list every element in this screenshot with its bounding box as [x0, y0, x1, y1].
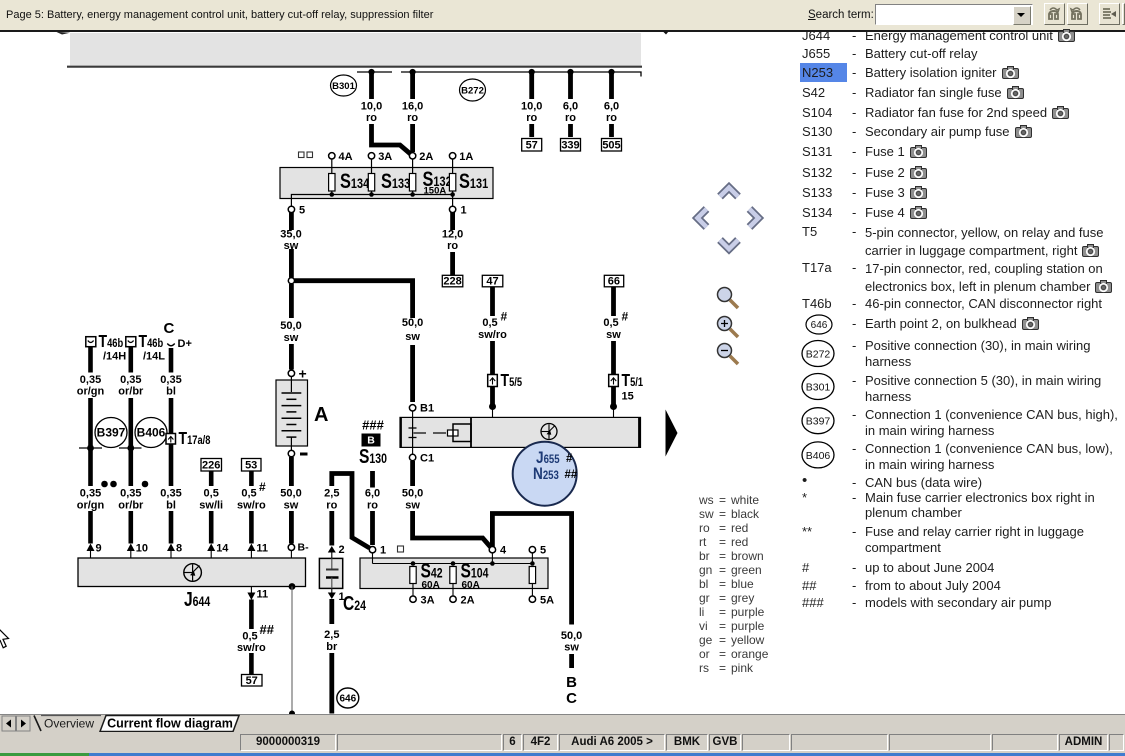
svg-text:9: 9	[96, 543, 102, 555]
svg-text:0,35: 0,35	[80, 488, 101, 500]
svg-text:50,0: 50,0	[280, 488, 301, 500]
svg-text:B-: B-	[298, 542, 310, 554]
earth point 646	[337, 688, 359, 708]
svg-text:ro: ro	[326, 500, 337, 512]
junction B397 tap	[79, 445, 102, 452]
fuse S131	[449, 169, 488, 192]
wire colour code key	[698, 492, 700, 494]
junction T5/1 to relay	[610, 403, 617, 417]
svg-text:2,5: 2,5	[324, 629, 339, 641]
svg-text:##: ##	[260, 622, 275, 637]
svg-text:sw: sw	[284, 500, 299, 512]
svg-text:sw: sw	[405, 331, 420, 343]
CAN bus dot wire 2	[142, 481, 149, 488]
pin 3A	[410, 584, 435, 607]
svg-text:/14L: /14L	[143, 351, 165, 363]
wire 6,0 ro S130 to pin 1	[370, 471, 375, 545]
svg-text:1: 1	[461, 205, 467, 217]
lead 4A	[331, 159, 333, 174]
pin 9 arrow	[87, 543, 102, 559]
value label 6,0 ro	[563, 101, 578, 125]
svg-text:B397: B397	[806, 416, 831, 428]
earth lead from J644	[289, 583, 296, 716]
bus bar track (30) grey band	[67, 33, 642, 67]
svg-text:0,5: 0,5	[204, 488, 219, 500]
svg-text:B272: B272	[461, 86, 484, 97]
svg-text:1: 1	[339, 591, 345, 603]
svg-text:+: +	[299, 366, 307, 382]
value label 12,0 ro	[442, 229, 463, 253]
pin 2A	[450, 584, 475, 607]
wire 0,35 or/br (CAN low)	[129, 347, 134, 544]
svg-text:sw/ro: sw/ro	[237, 500, 266, 512]
junction on bus at 339 wire	[567, 69, 573, 75]
legend symbol earth 646	[806, 315, 832, 334]
junction on bus at 57 wire	[529, 69, 535, 75]
svg-text:0,35: 0,35	[80, 374, 101, 386]
pin 11 arrow	[247, 543, 268, 559]
svg-text:T46b: T46b	[99, 331, 124, 351]
svg-text:0,35: 0,35	[120, 488, 141, 500]
svg-text:#: #	[501, 310, 508, 324]
svg-text:A: A	[314, 404, 328, 426]
svg-text:60A: 60A	[462, 580, 480, 591]
svg-text:5A: 5A	[540, 595, 554, 607]
CAN bus dots wire 1	[101, 481, 117, 488]
wire 0,5 sw/li	[209, 471, 214, 544]
label C24	[343, 592, 366, 614]
svg-text:10,0: 10,0	[361, 101, 382, 113]
connector T5/1 terminal 15	[609, 370, 643, 402]
svg-text:sw: sw	[606, 329, 621, 341]
internal bus S42 box	[373, 553, 535, 566]
svg-text:0,35: 0,35	[160, 374, 181, 386]
svg-text:0,35: 0,35	[160, 488, 181, 500]
wire 0,5# sw node 66 to T5/1	[611, 287, 616, 404]
value label 0,35 bl lower	[160, 488, 181, 512]
control unit J644 body	[78, 558, 306, 587]
svg-text:60A: 60A	[422, 580, 440, 591]
svg-text:0,35: 0,35	[120, 374, 141, 386]
svg-text:53: 53	[245, 460, 257, 472]
junction on bus at 10,0 wire	[368, 69, 374, 75]
svg-text:B406: B406	[806, 450, 831, 462]
wire 6,0 ro to node 505	[609, 73, 614, 137]
wire 50,0 sw to battery plus	[289, 284, 294, 370]
svg-text:646: 646	[811, 320, 828, 331]
svg-text:ro: ro	[565, 112, 576, 124]
value label 10,0 ro	[521, 101, 542, 125]
svg-text:50,0: 50,0	[280, 320, 301, 332]
value label 10,0 ro	[361, 101, 382, 125]
value label 0,5 sw/li	[199, 488, 223, 512]
wire 10,0 ro to fuse 2A	[372, 73, 411, 154]
node 228	[442, 275, 463, 287]
wire 50,0 sw branch to relay B1	[410, 283, 415, 402]
node 57 lower	[242, 675, 263, 688]
fuse 5A column	[529, 567, 535, 584]
control unit symbol in relay	[541, 424, 557, 440]
svg-text:14: 14	[216, 543, 229, 555]
wire bus segment B272	[401, 72, 641, 77]
page continuation arrow	[666, 410, 678, 457]
models marker ###	[362, 418, 384, 433]
pin 1 fuse carrier	[369, 545, 386, 557]
value label 50,0 sw	[402, 488, 423, 512]
battery plus terminal	[288, 366, 306, 382]
svg-text:/14H: /14H	[103, 351, 126, 363]
node C label	[164, 320, 175, 337]
svg-text:B406: B406	[137, 426, 166, 440]
wire 10,0 ro to node 57	[529, 73, 534, 137]
wire 2,5 br to earth 646	[329, 599, 334, 714]
pin 4 fuse carrier	[489, 545, 507, 557]
svg-text:47: 47	[486, 276, 498, 288]
highlight circle J655 N253	[513, 442, 578, 506]
svg-text:50,0: 50,0	[402, 317, 423, 329]
connector T46b/14L	[126, 331, 165, 362]
svg-text:S130: S130	[359, 445, 387, 467]
svg-text:2A: 2A	[419, 151, 433, 163]
pin 5 fuse carrier	[529, 545, 546, 557]
wire 0,5## sw/ro to node 57	[249, 600, 254, 675]
status bar	[0, 732, 1125, 753]
svg-text:or/gn: or/gn	[77, 500, 105, 512]
svg-text:16,0: 16,0	[402, 101, 423, 113]
wire 0,35 bl (D+)	[169, 348, 174, 544]
value label 0,5# sw/ro	[237, 480, 266, 512]
nav chevron left	[698, 209, 707, 227]
value label 35,0 sw	[280, 229, 301, 253]
carrier marker square	[398, 546, 404, 552]
svg-text:8: 8	[176, 543, 182, 555]
battery minus terminal	[288, 450, 307, 456]
svg-text:ro: ro	[407, 112, 418, 124]
wire 16,0 ro to fuse 2A	[410, 73, 415, 152]
application top bar	[0, 0, 1125, 30]
legend list	[800, 63, 847, 82]
zoom tool plain	[718, 288, 739, 309]
value label 50,0 sw	[280, 320, 301, 344]
wire 50,0 sw C1 to pin 4	[413, 461, 491, 547]
svg-text:C1: C1	[420, 453, 434, 465]
fuse box S131-S134 body	[280, 168, 493, 199]
pin 2A	[409, 151, 433, 163]
svg-text:sw/ro: sw/ro	[478, 329, 507, 341]
positive connection B301	[331, 75, 357, 96]
svg-text:T46b: T46b	[139, 331, 164, 351]
svg-text:2: 2	[339, 544, 345, 556]
svg-text:228: 228	[443, 276, 461, 288]
wire bus segment B301	[357, 71, 392, 73]
wire 6,0 ro to node 339	[568, 73, 573, 137]
suppression filter C24 body	[319, 558, 342, 588]
svg-text:11: 11	[256, 543, 268, 555]
svg-text:3A: 3A	[378, 151, 392, 163]
nav chevron right	[750, 209, 759, 227]
svg-text:B1: B1	[420, 403, 434, 415]
pin B-	[288, 542, 309, 559]
fuse carrier marker squares	[299, 152, 313, 158]
pin 1	[449, 205, 466, 217]
connection B406	[135, 418, 167, 448]
svg-text:50,0: 50,0	[561, 630, 582, 642]
lead 2A	[412, 159, 414, 174]
relay J655/N253 body	[400, 417, 641, 447]
positive connection B272	[460, 79, 486, 101]
svg-text:0,5: 0,5	[242, 631, 257, 643]
value label 0,35 or/gn lower	[77, 488, 105, 512]
svg-text:35,0: 35,0	[280, 229, 301, 241]
svg-text:sw: sw	[405, 500, 420, 512]
fuse box internal bus	[291, 192, 455, 206]
svg-text:C: C	[566, 690, 577, 707]
value label 0,35 or/br lower	[118, 488, 144, 512]
svg-text:66: 66	[608, 276, 620, 288]
value label 0,5# sw/ro	[478, 310, 507, 342]
relay contact symbol	[409, 417, 472, 447]
svg-text:0,5: 0,5	[603, 317, 618, 329]
legend symbol B272	[802, 341, 834, 367]
svg-text:ro: ro	[367, 500, 378, 512]
value label 0,35 or/gn	[77, 374, 105, 398]
fuse S134	[329, 169, 370, 192]
svg-text:57: 57	[246, 675, 258, 687]
svg-text:B272: B272	[806, 349, 831, 361]
svg-text:ro: ro	[606, 112, 617, 124]
node C	[566, 690, 577, 707]
value label 0,35 or/br	[118, 374, 144, 398]
fuse S132 150A	[409, 167, 451, 196]
node 66	[604, 275, 623, 287]
node 226	[201, 459, 222, 472]
torn corner mark left	[56, 32, 70, 35]
pin C1	[409, 447, 434, 464]
svg-text:B301: B301	[806, 382, 831, 394]
svg-text:br: br	[326, 641, 338, 653]
value label 2,5 ro	[324, 488, 339, 512]
node B	[566, 674, 577, 691]
junction on bus at 505 wire	[608, 69, 614, 75]
node 339	[561, 139, 581, 152]
legend symbol B406	[802, 442, 834, 468]
svg-text:2,5: 2,5	[324, 488, 339, 500]
value label 2,5 br	[324, 629, 339, 653]
value label 0,5# sw	[603, 310, 628, 342]
svg-text:57: 57	[526, 140, 538, 152]
junction node battery branch	[288, 278, 294, 284]
wire pin 4 to B C	[492, 514, 571, 669]
svg-text:5: 5	[299, 205, 305, 217]
svg-text:10,0: 10,0	[521, 101, 542, 113]
svg-text:5: 5	[540, 545, 546, 557]
svg-text:#: #	[259, 480, 266, 494]
wire 0,35 or/gn (CAN high)	[88, 347, 93, 544]
svg-text:T5/1: T5/1	[622, 370, 644, 390]
pin 1A	[449, 151, 473, 163]
connector T46b/14H	[86, 331, 126, 362]
value label 50,0 sw	[280, 488, 301, 512]
battery A	[276, 377, 308, 451]
junction on bus at 16,0 wire	[410, 69, 416, 75]
pin 14 arrow	[207, 543, 229, 559]
svg-text:sw: sw	[284, 332, 299, 344]
svg-text:6,0: 6,0	[604, 101, 619, 113]
svg-text:4: 4	[500, 545, 507, 557]
svg-text:B397: B397	[97, 426, 126, 440]
connection B397	[95, 418, 127, 448]
svg-text:T17a/8: T17a/8	[179, 428, 211, 448]
svg-text:sw: sw	[284, 240, 299, 252]
junction B406 tap	[119, 445, 142, 452]
svg-text:C: C	[164, 320, 175, 337]
svg-text:bl: bl	[166, 500, 176, 512]
svg-text:sw/ro: sw/ro	[237, 642, 266, 654]
wire 50,0 sw battery minus to J644 B-	[289, 457, 294, 544]
connector T5/5	[488, 370, 522, 390]
value label 16,0 ro	[402, 101, 423, 125]
svg-text:3A: 3A	[421, 595, 435, 607]
svg-text:0,5: 0,5	[482, 317, 497, 329]
svg-text:1A: 1A	[459, 151, 473, 163]
value label 50,0 sw	[561, 630, 582, 654]
zoom tool minus	[718, 344, 739, 365]
svg-text:T5/5: T5/5	[501, 370, 523, 390]
value label 0,35 bl	[160, 374, 181, 398]
svg-text:or/br: or/br	[118, 500, 144, 512]
svg-text:ro: ro	[526, 112, 537, 124]
pin 11 output arrow	[247, 587, 268, 601]
svg-text:0,5: 0,5	[241, 488, 256, 500]
torn-edge tick top	[663, 32, 669, 35]
svg-text:ro: ro	[366, 112, 377, 124]
control unit symbol J644	[184, 564, 202, 582]
value label 0,5## sw/ro	[237, 622, 275, 654]
pin 2 arrow C24	[328, 544, 345, 558]
svg-text:6,0: 6,0	[563, 101, 578, 113]
node 47	[482, 275, 503, 287]
svg-text:sw: sw	[564, 642, 579, 654]
value label 6,0 ro	[604, 101, 619, 125]
pin 1 output arrow C24	[328, 588, 345, 603]
wire 12,0 ro pin 1 to node 228	[450, 213, 455, 276]
svg-text:6,0: 6,0	[365, 488, 380, 500]
node D+ terminal cup	[167, 338, 192, 350]
svg-text:bl: bl	[166, 386, 176, 398]
nav chevron up	[720, 188, 738, 197]
svg-text:Overview: Overview	[44, 717, 94, 731]
nav chevron down	[720, 240, 738, 249]
lead 1A	[452, 159, 454, 174]
pin 5	[288, 205, 305, 217]
wire 2,5 ro C24 to fuse box pin 1	[332, 474, 370, 549]
fuse S130 label	[359, 445, 387, 467]
pin 8 arrow	[167, 543, 182, 559]
lead 3A	[371, 159, 373, 174]
svg-text:B301: B301	[332, 81, 355, 92]
svg-text:646: 646	[339, 694, 356, 705]
wire 0,5# sw/ro node 47 to T5/5	[490, 287, 495, 404]
connector T17a/8	[166, 428, 210, 448]
node 53	[242, 459, 262, 472]
svg-text:50,0: 50,0	[402, 488, 423, 500]
value label 6,0 ro	[365, 488, 380, 512]
svg-text:15: 15	[622, 391, 634, 403]
svg-text:339: 339	[561, 140, 579, 152]
pin B1	[409, 403, 434, 418]
svg-text:11: 11	[257, 589, 269, 601]
wire 35,0 sw from pin 5	[289, 213, 294, 278]
svg-text:1: 1	[380, 545, 386, 557]
mouse cursor	[0, 625, 9, 648]
label J644	[184, 588, 210, 610]
svg-text:505: 505	[602, 140, 620, 152]
terminal B black box	[362, 434, 381, 447]
svg-text:##: ##	[565, 469, 578, 481]
svg-text:Current flow diagram: Current flow diagram	[107, 717, 233, 731]
zoom tool plus	[718, 317, 739, 338]
svg-text:10: 10	[136, 543, 148, 555]
battery label A	[314, 404, 328, 426]
pin 10 arrow	[127, 543, 148, 559]
fuse S104 60A	[450, 560, 489, 591]
svg-text:4A: 4A	[339, 151, 353, 163]
svg-text:2A: 2A	[461, 595, 475, 607]
node 57	[522, 139, 542, 152]
value label 50,0 sw	[402, 317, 423, 343]
junction T5/5 to relay	[489, 403, 496, 417]
node 505	[602, 139, 622, 152]
pin 5A	[529, 584, 554, 607]
svg-text:226: 226	[202, 460, 220, 472]
svg-text:J644: J644	[184, 588, 210, 610]
svg-text:#: #	[566, 453, 573, 465]
wire branch to relay B1	[295, 281, 413, 290]
svg-text:B: B	[566, 674, 577, 691]
legend symbol B301	[802, 374, 834, 400]
svg-text:D+: D+	[178, 338, 192, 350]
svg-text:12,0: 12,0	[442, 229, 463, 241]
svg-text:#: #	[622, 310, 629, 324]
lead fuse bottoms	[332, 191, 453, 195]
wire 0,5 sw/ro	[249, 471, 254, 544]
pin 4A	[329, 151, 353, 163]
fuse box S42/S104 body	[360, 558, 548, 589]
svg-text:C24: C24	[343, 592, 366, 614]
fuse S42 60A	[410, 560, 443, 591]
svg-text:or/br: or/br	[118, 386, 144, 398]
tab bar	[0, 714, 1125, 732]
svg-text:sw/li: sw/li	[199, 500, 223, 512]
pin 3A	[368, 151, 392, 163]
svg-text:###: ###	[362, 418, 384, 433]
svg-text:or/gn: or/gn	[77, 386, 105, 398]
svg-text:ro: ro	[447, 240, 458, 252]
legend symbol B397	[802, 408, 834, 434]
fuse S133	[368, 169, 410, 192]
